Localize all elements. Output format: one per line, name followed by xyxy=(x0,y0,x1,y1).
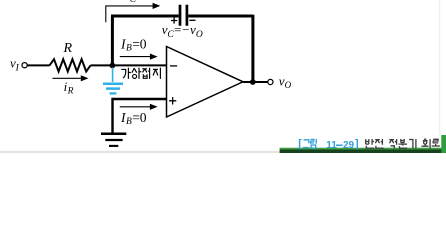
svg-text:R: R xyxy=(67,87,74,97)
svg-text:O: O xyxy=(196,30,203,40)
svg-text:O: O xyxy=(285,80,292,90)
svg-text:]: ] xyxy=(355,138,359,150)
svg-text:C: C xyxy=(130,0,137,5)
svg-text:=0: =0 xyxy=(132,110,147,125)
svg-text:11: 11 xyxy=(326,140,337,151)
svg-text:B: B xyxy=(126,44,132,54)
svg-text:[: [ xyxy=(298,138,302,150)
svg-text:I: I xyxy=(15,63,20,73)
svg-text:B: B xyxy=(126,117,132,127)
svg-text:R: R xyxy=(63,41,73,56)
svg-text:=: = xyxy=(174,22,181,37)
svg-text:29: 29 xyxy=(343,140,355,151)
svg-text:−: − xyxy=(182,22,189,37)
svg-text:=0: =0 xyxy=(132,36,147,51)
